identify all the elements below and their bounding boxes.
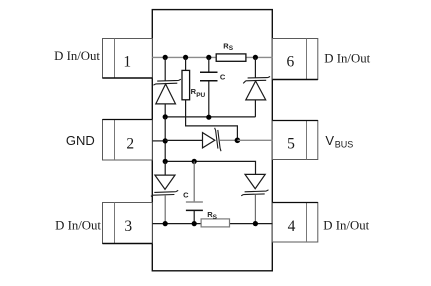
node dots on GND rail [163,114,212,119]
pin 4 box [272,203,318,243]
value label RS (top) [223,42,234,53]
node junction dots on top rail [163,55,258,60]
svg-text:BUS: BUS [335,139,354,149]
pin 2 box [103,120,153,161]
wire GND rail (y=116.9) [165,116,255,118]
svg-text:C: C [183,190,189,199]
pin 5 box [272,121,318,160]
wire pin 2 to GND node [152,140,165,142]
label VBUS (pin 5) [325,133,353,150]
resistor RS (top) [216,54,246,61]
svg-text:4: 4 [288,218,296,235]
svg-text:3: 3 [124,218,132,235]
pin 1 box [103,39,153,79]
svg-text:C: C [220,72,226,81]
wire D3 cathode to VBUS node [220,139,238,141]
wire bottom rail (pin 3 to pin 4, y=223.6) [152,223,272,225]
svg-text:5: 5 [287,135,295,152]
IC body outline [152,10,272,271]
node dots on lower GND rail [163,159,197,164]
wire GND to diode D3 anode [165,139,202,141]
wire top rail (pin 1 to pin 6, y=57.4) [152,56,272,58]
svg-text:D In/Out: D In/Out [55,219,101,233]
value label RS (bottom) [207,210,217,221]
zener diode D1 (top left, cathode up) [153,57,181,117]
diode D3 (middle, anode left, cathode to VBUS) [203,128,222,151]
wire RPU bottom to VBUS node [186,100,238,140]
capacitor C (top) [200,57,218,117]
node dot VBUS [235,138,241,144]
svg-text:1: 1 [123,54,131,71]
svg-text:D In/Out: D In/Out [324,51,370,65]
zener diode D4 (bottom left, cathode down) [151,161,178,223]
value label RPU [191,87,206,99]
svg-text:GND: GND [66,133,95,148]
svg-text:D In/Out: D In/Out [54,49,100,63]
node dots on bottom rail [163,221,258,226]
capacitor C (bottom) [186,161,203,223]
wire GND vertical (x=165.2) [164,117,166,161]
node dot GND / pin2 [163,138,168,143]
wire VBUS node to pin 5 [237,139,272,141]
resistor RS (bottom) [201,219,229,227]
pin 3 box [103,203,153,244]
svg-text:D In/Out: D In/Out [323,219,369,233]
pin 6 box [272,39,318,80]
svg-text:6: 6 [287,54,295,71]
resistor RPU [182,57,190,99]
svg-text:V: V [325,133,334,148]
svg-text:S: S [229,45,234,52]
svg-text:S: S [213,214,218,221]
svg-text:PU: PU [196,92,205,99]
zener diode D5 (bottom right, cathode down) [241,174,268,223]
zener diode D2 (top right, cathode up) [243,57,270,117]
wire lower GND rail (y=161.4) [165,161,255,174]
svg-text:2: 2 [126,135,134,152]
